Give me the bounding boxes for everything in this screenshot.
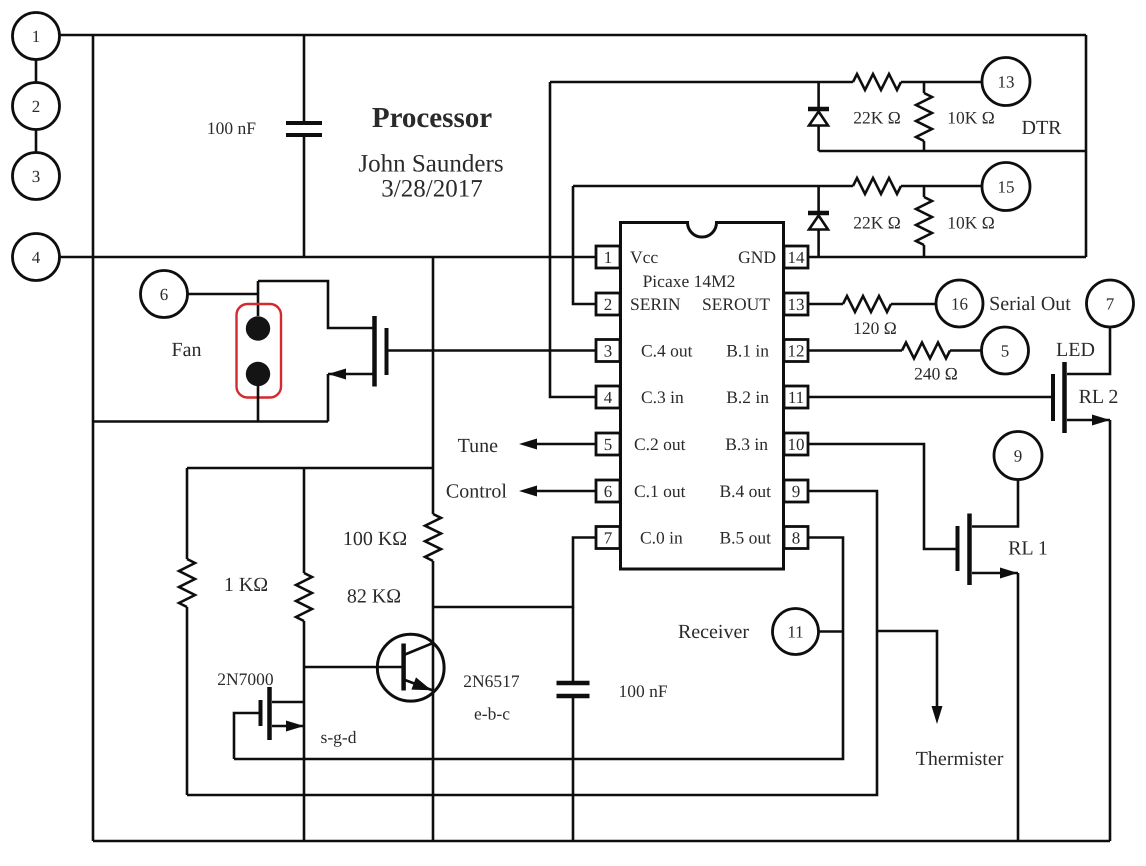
resistor R3 22K (net2) [853, 178, 901, 194]
svg-text:1 KΩ: 1 KΩ [224, 574, 268, 596]
svg-text:11: 11 [787, 623, 803, 642]
svg-text:3: 3 [604, 342, 613, 361]
svg-text:RL 1: RL 1 [1008, 538, 1048, 560]
wire capacitor C2 top lead [572, 607, 575, 681]
wire Vcc drop x433 [432, 257, 435, 514]
wire fan top lead [257, 281, 260, 316]
svg-text:C.4 out: C.4 out [641, 341, 693, 361]
svg-text:12: 12 [788, 342, 805, 361]
wire Q5 gate [234, 713, 259, 759]
svg-text:Fan: Fan [172, 339, 202, 361]
svg-text:LED: LED [1056, 339, 1095, 361]
svg-text:Vcc: Vcc [630, 247, 658, 267]
arrow RL2 source [1092, 415, 1110, 426]
diode D2 lead top [817, 186, 820, 211]
wire net2 top [573, 185, 853, 188]
node 15 [982, 163, 1030, 211]
wire Q3 source to ground wire [327, 374, 330, 422]
diode D1 triangle [809, 112, 828, 126]
resistor R4 bottom lead [923, 245, 926, 257]
wire node4 to pin1 Vcc [60, 256, 597, 259]
wire pin8 B.5 out down-left bus [234, 538, 843, 760]
svg-text:100 nF: 100 nF [618, 681, 667, 701]
node 6 [141, 271, 188, 318]
svg-text:4: 4 [604, 388, 613, 407]
capacitor C2 100 nF [557, 683, 590, 696]
svg-text:7: 7 [604, 529, 613, 548]
svg-text:RL 2: RL 2 [1079, 386, 1119, 408]
svg-text:B.1 in: B.1 in [726, 341, 769, 361]
wire pin7 C.0 in drop [433, 538, 596, 608]
diode D1 cathode bar [808, 107, 829, 112]
svg-text:3: 3 [32, 167, 41, 186]
wire pin10 B.3 in to RL1 gate [808, 444, 956, 549]
svg-text:100 nF: 100 nF [207, 118, 256, 138]
wire pin9 B.4 out down-left bus [187, 491, 877, 795]
svg-text:1: 1 [604, 248, 613, 267]
wire capacitor C2 bottom lead [572, 698, 575, 841]
svg-text:13: 13 [998, 73, 1015, 92]
resistor R4 10K (net2) top lead [923, 186, 926, 197]
wire RL1 source to ground bus [1017, 573, 1020, 841]
wire R9 82K top lead [303, 468, 306, 573]
pin 13 box [784, 293, 808, 315]
svg-text:8: 8 [792, 529, 801, 548]
wire RL2 source to ground bus [1109, 420, 1112, 841]
pin 2 box [596, 293, 620, 315]
pin 11 box [784, 386, 808, 408]
svg-text:2N7000: 2N7000 [217, 669, 274, 689]
node 4 [13, 234, 60, 281]
wire R8 1K top lead [186, 468, 189, 559]
wire x573 drop to pin2 SERIN [573, 186, 596, 304]
wire pin13 SEROUT lead [808, 303, 843, 306]
pin 10 box [784, 433, 808, 455]
resistor R4 10K zigzag [916, 197, 932, 245]
wire pin5 C.2 out tune [537, 443, 596, 446]
arrow Q4 emitter [411, 677, 431, 690]
node 7 [1087, 280, 1134, 327]
transistor Q1 RL2 gate bar [1051, 374, 1055, 421]
wire R3 to node 15 [901, 185, 982, 188]
svg-text:Picaxe 14M2: Picaxe 14M2 [643, 271, 736, 291]
svg-text:C.0 in: C.0 in [640, 528, 683, 548]
resistor R6 240 ohm [902, 343, 950, 359]
transistor Q3 fan gate bar [385, 328, 389, 375]
node 3 [13, 153, 60, 200]
resistor R2 10K zigzag [916, 93, 932, 141]
arrow Q3 source [328, 369, 346, 380]
arrow RL1 source [1000, 568, 1018, 579]
svg-text:22K Ω: 22K Ω [853, 108, 901, 128]
wire node6 to fan [188, 293, 259, 296]
wire x550 drop to pin4 C.3 in [550, 82, 596, 397]
svg-text:B.2 in: B.2 in [726, 387, 769, 407]
resistor R5 120 ohm [843, 296, 891, 312]
svg-text:SEROUT: SEROUT [702, 294, 770, 314]
svg-text:Serial Out: Serial Out [989, 293, 1071, 315]
arrow Q5 source [286, 721, 304, 732]
wire Q3 gate to pin3 C.4 out [389, 349, 597, 352]
wire R8 bottom lead to y795 bus [186, 607, 189, 795]
svg-text:Tune: Tune [458, 435, 499, 457]
wire node2-node3 [35, 130, 38, 153]
node 9 [994, 432, 1042, 480]
svg-text:1: 1 [32, 27, 41, 46]
node 13 [982, 58, 1030, 106]
capacitor C1 100 nF [286, 123, 322, 135]
svg-text:2: 2 [32, 97, 41, 116]
svg-text:Thermister: Thermister [916, 748, 1004, 770]
svg-text:5: 5 [1001, 342, 1010, 361]
pin 9 box [784, 480, 808, 502]
diode D2 lead bottom [817, 230, 820, 258]
wire node1-node2 [35, 60, 38, 83]
wire pin11 B.2 in to RL2 gate [808, 396, 1051, 399]
transistor Q3 fan channel bar [372, 316, 377, 387]
svg-text:Receiver: Receiver [678, 621, 749, 643]
svg-text:6: 6 [160, 285, 169, 304]
svg-text:16: 16 [951, 295, 968, 314]
wire R1 to node 13 [901, 81, 982, 84]
fan terminal dot upper [246, 316, 270, 340]
wire capacitor C1 bottom lead [303, 137, 306, 257]
diode D1 lead bottom [817, 126, 820, 152]
svg-text:C.1 out: C.1 out [634, 481, 686, 501]
svg-text:10K Ω: 10K Ω [947, 108, 995, 128]
wire bottom ground bus [93, 840, 1110, 843]
svg-text:s-g-d: s-g-d [321, 727, 357, 747]
svg-text:82 KΩ: 82 KΩ [347, 586, 401, 608]
node 16 [936, 280, 983, 327]
transistor Q1 RL2 channel bar [1062, 362, 1067, 433]
svg-text:120 Ω: 120 Ω [853, 318, 897, 338]
pin 3 box [596, 340, 620, 362]
resistor R2 10K (DTR) leads [923, 82, 926, 93]
resistor R8 1K zigzag [179, 559, 195, 607]
fan terminal dot lower [246, 362, 270, 386]
wire DTR net top [550, 81, 853, 84]
svg-text:14: 14 [788, 248, 806, 267]
svg-text:B.4 out: B.4 out [719, 481, 771, 501]
wire node11 to pin8 bus [819, 630, 844, 633]
svg-text:10: 10 [788, 435, 805, 454]
diode D2 triangle [809, 216, 828, 230]
svg-text:6: 6 [604, 482, 613, 501]
svg-text:22K Ω: 22K Ω [853, 213, 901, 233]
fan connector red outline [237, 304, 282, 398]
wire capacitor C1 top lead [303, 35, 306, 121]
wire R6 to node 5 [950, 349, 982, 352]
transistor Q4 emitter [405, 680, 433, 691]
pin 6 box [596, 480, 620, 502]
svg-text:B.5 out: B.5 out [719, 528, 771, 548]
resistor R9 82K zigzag [296, 573, 312, 621]
resistor R2 bottom lead [923, 141, 926, 151]
wire x433 lower run [432, 561, 435, 841]
pin 7 box [596, 527, 620, 549]
wire R9 bottom rail down [303, 621, 306, 841]
pin 5 box [596, 433, 620, 455]
node 2 [13, 83, 60, 130]
pin 14 box [784, 246, 808, 268]
transistor Q4 base bar [401, 644, 406, 691]
wire right border [1085, 35, 1088, 257]
resistor R1 22K (DTR) [853, 74, 901, 90]
svg-text:DTR: DTR [1022, 117, 1063, 139]
svg-text:B.3 in: B.3 in [725, 434, 768, 454]
pin 1 box [596, 246, 620, 268]
node 5 [982, 327, 1029, 374]
transistor Q2 RL1 channel bar [967, 514, 972, 586]
wire Q3 source [328, 373, 373, 376]
wire net2 bottom GND [808, 256, 1086, 259]
transistor Q5 2N7000 channel bar [267, 687, 272, 740]
svg-text:2: 2 [604, 295, 613, 314]
svg-text:13: 13 [788, 295, 805, 314]
svg-text:9: 9 [1014, 447, 1023, 466]
wire pin6 C.1 out control [537, 490, 596, 493]
wire R5 to node 16 [891, 303, 936, 306]
op-amp U1 Picaxe 14M2 body [621, 223, 784, 570]
wire pin12 B.1 in lead [808, 349, 902, 352]
pin 8 box [784, 527, 808, 549]
wire DTR net bottom [819, 150, 1086, 153]
wire node7 to RL2 drain [1067, 327, 1110, 374]
svg-text:11: 11 [788, 388, 804, 407]
svg-text:9: 9 [792, 482, 801, 501]
resistor R7 100K zigzag [425, 514, 441, 561]
svg-text:10K Ω: 10K Ω [947, 213, 995, 233]
wire RL1 source [972, 572, 1018, 575]
diode D1 lead top [817, 82, 820, 107]
wire fan bottom lead [257, 386, 260, 422]
svg-text:SERIN: SERIN [630, 294, 681, 314]
transistor Q5 2N7000 gate bar [259, 700, 263, 726]
transistor Q4 collector [405, 643, 433, 655]
diode D2 cathode bar [808, 211, 829, 216]
svg-text:GND: GND [738, 247, 776, 267]
wire top border bus [60, 34, 1087, 37]
transistor Q2 RL1 gate bar [956, 526, 960, 571]
wire fan ground return [93, 420, 328, 423]
node 11 [773, 609, 819, 655]
wire thermister branch [877, 631, 937, 709]
svg-text:3/28/2017: 3/28/2017 [381, 176, 482, 203]
wire node9 to RL1 drain [972, 480, 1018, 527]
svg-text:5: 5 [604, 435, 613, 454]
wire top rail of R8 R9 [187, 467, 433, 470]
wire fan top to Q3 drain [258, 281, 373, 328]
wire Q4 base rail [304, 666, 402, 669]
svg-text:240 Ω: 240 Ω [914, 364, 958, 384]
wire RL2 source [1067, 419, 1110, 422]
wire left border [92, 35, 95, 841]
transistor Q4 2N6517 circle [377, 634, 444, 701]
svg-text:Processor: Processor [372, 102, 492, 134]
arrow control [519, 486, 537, 497]
svg-text:e-b-c: e-b-c [474, 704, 510, 724]
arrow tune [519, 439, 537, 450]
wire Q5 drain [272, 701, 304, 704]
svg-text:C.2 out: C.2 out [634, 434, 686, 454]
svg-text:2N6517: 2N6517 [463, 671, 520, 691]
svg-text:C.3 in: C.3 in [641, 387, 684, 407]
pin 4 box [596, 386, 620, 408]
pin 12 box [784, 340, 808, 362]
svg-text:John Saunders: John Saunders [358, 151, 503, 178]
svg-text:4: 4 [32, 248, 41, 267]
svg-text:Control: Control [446, 481, 508, 503]
svg-text:100 KΩ: 100 KΩ [343, 528, 407, 550]
node 1 [13, 13, 60, 60]
wire Q5 source [272, 725, 304, 728]
svg-text:15: 15 [998, 178, 1015, 197]
arrow thermister [932, 706, 943, 724]
svg-text:7: 7 [1106, 295, 1115, 314]
